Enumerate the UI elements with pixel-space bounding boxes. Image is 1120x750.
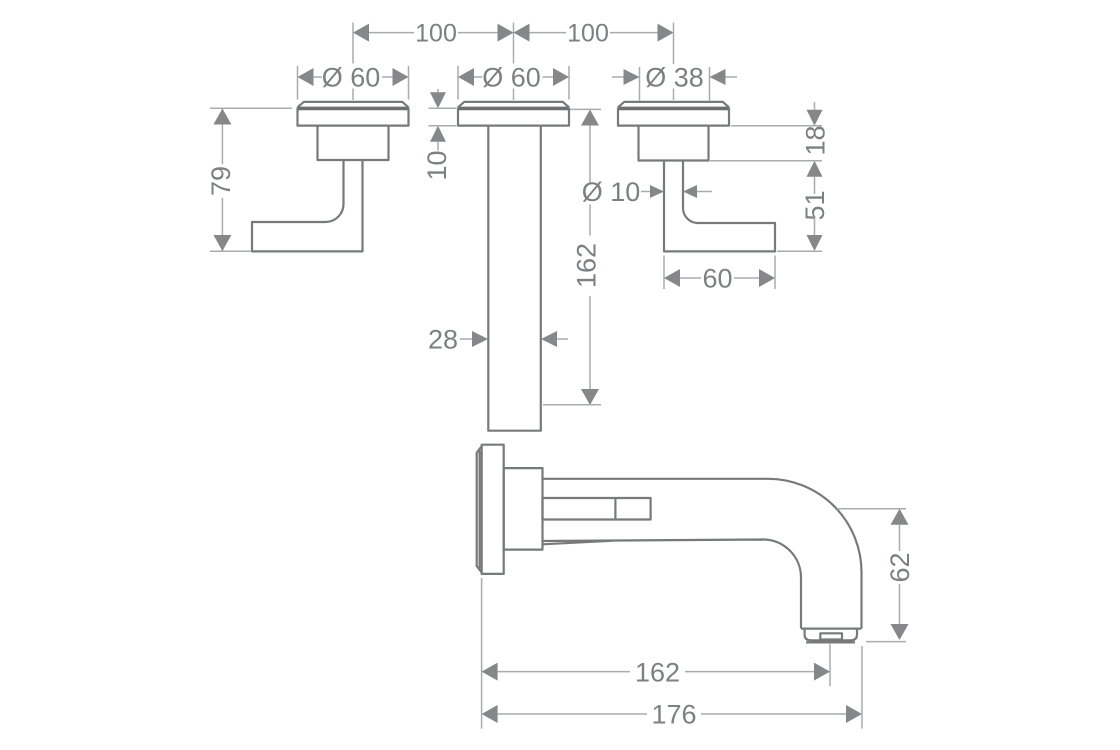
svg-text:Ø 60: Ø 60 bbox=[482, 63, 541, 93]
svg-text:Ø 10: Ø 10 bbox=[582, 177, 641, 207]
svg-text:62: 62 bbox=[885, 552, 915, 582]
svg-text:Ø 38: Ø 38 bbox=[645, 63, 704, 93]
svg-text:28: 28 bbox=[428, 325, 458, 355]
svg-text:Ø 60: Ø 60 bbox=[322, 63, 381, 93]
svg-text:162: 162 bbox=[635, 657, 680, 687]
svg-text:79: 79 bbox=[206, 166, 236, 196]
svg-text:100: 100 bbox=[567, 20, 609, 48]
svg-text:100: 100 bbox=[415, 20, 457, 48]
svg-text:162: 162 bbox=[572, 243, 602, 288]
svg-text:51: 51 bbox=[800, 190, 830, 220]
svg-text:10: 10 bbox=[422, 150, 452, 180]
svg-text:18: 18 bbox=[801, 125, 831, 155]
svg-text:176: 176 bbox=[651, 700, 696, 730]
svg-text:60: 60 bbox=[702, 264, 732, 294]
